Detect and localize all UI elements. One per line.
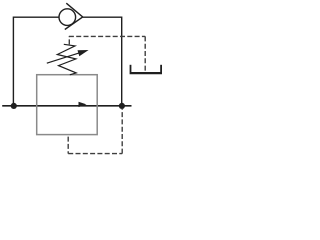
wire: main horizontal line: [2, 105, 131, 107]
tank symbol left wall: [130, 65, 132, 72]
pilot line (dashed) up to right junction: [121, 109, 123, 154]
wire: top horizontal right and right vertical down: [83, 17, 122, 106]
pilot line (dashed) from spring top up: [68, 36, 70, 44]
pilot line (dashed) top horizontal: [69, 35, 145, 37]
check valve seat (V): [65, 3, 83, 29]
valve body envelope (gray square): [37, 75, 97, 135]
pilot line (dashed) down to tank: [144, 36, 146, 70]
tank symbol bottom: [130, 72, 162, 74]
pilot line (dashed) bottom horizontal: [68, 153, 122, 155]
adjustability arrow shaft through spring: [47, 53, 80, 64]
wire: left vertical and top horizontal to check valve: [13, 17, 59, 106]
adjustability arrow head: [78, 50, 89, 56]
tank symbol right wall: [160, 65, 162, 72]
flow path arrowhead on main line: [79, 102, 87, 107]
pilot line (dashed) from valve body bottom down: [67, 137, 69, 154]
node junction dot right: [119, 103, 125, 109]
spring (zigzag) above valve body: [57, 44, 76, 75]
check valve ball (circle): [59, 9, 76, 26]
node junction dot left: [11, 103, 17, 109]
